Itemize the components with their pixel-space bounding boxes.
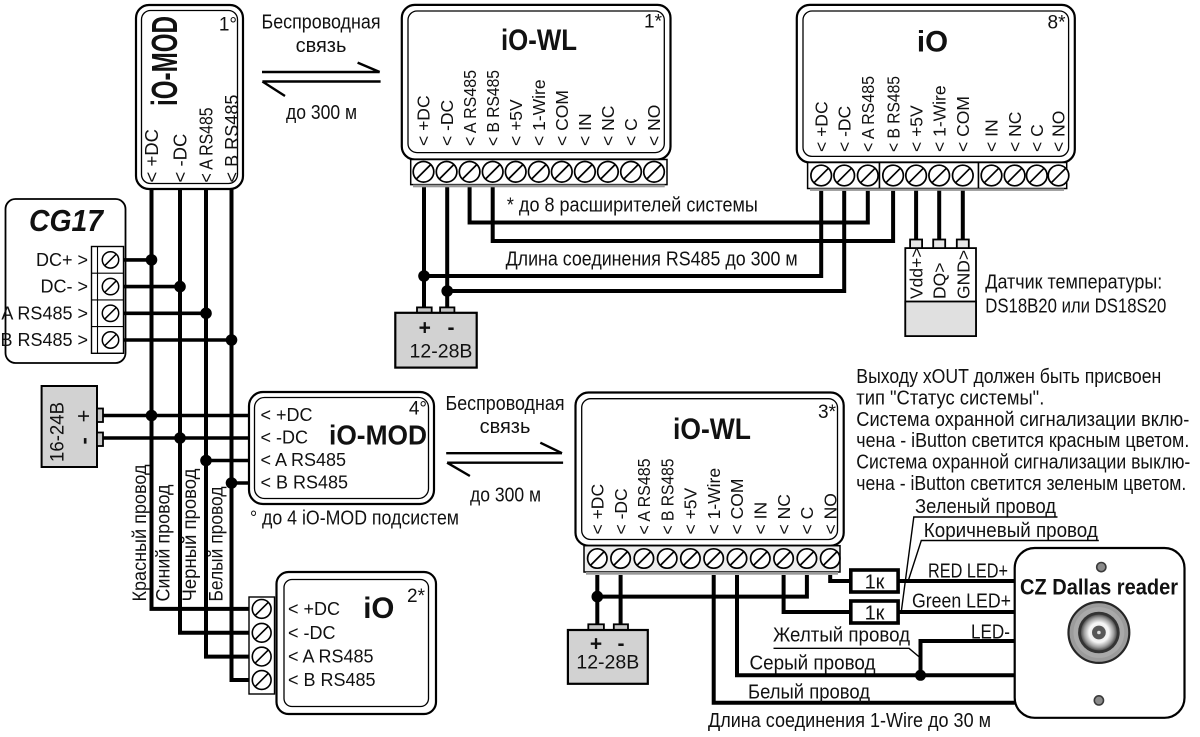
junction node LED- to COM [915, 670, 926, 681]
svg-text:DS18B20 или DS18S20: DS18B20 или DS18S20 [985, 296, 1166, 318]
svg-text:CG17: CG17 [29, 203, 105, 238]
svg-text:< B RS485: < B RS485 [261, 473, 349, 493]
svg-text:GND>: GND> [954, 250, 974, 299]
svg-text:Green LED+: Green LED+ [912, 590, 1011, 612]
wire bus: +DC red vertical from U1 to iO 2* [152, 189, 251, 609]
svg-text:Красный провод: Красный провод [130, 465, 151, 602]
svg-text:LED-: LED- [971, 622, 1010, 644]
svg-text:< A RS485: < A RS485 [858, 76, 878, 152]
svg-text:< IN: < IN [751, 502, 771, 535]
svg-text:iO-MOD: iO-MOD [144, 16, 185, 106]
svg-text:+: + [71, 410, 96, 423]
label Зеленый провод with callout [902, 496, 1058, 610]
svg-text:Система охранной сигнализации: Система охранной сигнализации выклю- [856, 452, 1190, 474]
svg-text:< +DC: < +DC [261, 405, 313, 425]
svg-text:< IN: < IN [575, 113, 595, 146]
svg-text:< C: < C [621, 118, 641, 146]
wire bus: B RS485 white vertical [232, 189, 251, 680]
svg-text:< -DC: < -DC [611, 488, 631, 534]
battery 12-28B (top) [395, 307, 476, 367]
module iO-MOD U1 (1&#176;) [136, 5, 243, 189]
wire -DC rail to iO8 [447, 191, 844, 291]
junction node B RS485 [226, 334, 238, 346]
wire node B RS485 to iO-MOD 4 [232, 481, 251, 485]
svg-text:CZ Dallas reader: CZ Dallas reader [1020, 575, 1178, 600]
wire 1-Wire (белый) to reader [714, 575, 1015, 703]
svg-text:° до 4 iO-MOD подсистем: ° до 4 iO-MOD подсистем [250, 508, 459, 530]
label Коричневый провод with callout [909, 520, 1099, 580]
svg-text:Длина соединения RS485 до 300: Длина соединения RS485 до 300 м [506, 249, 798, 271]
svg-text:< -DC: < -DC [834, 106, 854, 152]
svg-text:iO: iO [363, 592, 394, 625]
svg-text:< NC: < NC [774, 494, 794, 534]
junction node +DC battery2 [592, 591, 604, 603]
wire CG17 DC- to node [124, 285, 181, 289]
svg-text:* до 8 расширителей системы: * до 8 расширителей системы [507, 195, 758, 217]
svg-text:RED LED+: RED LED+ [928, 561, 1008, 583]
wire +DC rail to iO8 [424, 191, 821, 276]
battery 12-28B (bottom) [568, 624, 648, 684]
svg-text:Черный провод: Черный провод [180, 469, 201, 602]
svg-text:< NC: < NC [1005, 112, 1025, 152]
svg-text:Система охранной сигнализации: Система охранной сигнализации вклю- [856, 409, 1189, 431]
junction node A RS485 to U4 [200, 455, 212, 467]
svg-text:Серый провод: Серый провод [750, 653, 876, 675]
svg-text:чена - iButton светится зелены: чена - iButton светится зеленым цветом. [856, 473, 1186, 495]
svg-text:Синий провод: Синий провод [154, 485, 175, 602]
svg-text:Коричневый провод: Коричневый провод [924, 520, 1098, 542]
wire 16-24B + to iO-MOD 4 [103, 414, 250, 418]
svg-text:1к: 1к [865, 603, 885, 625]
svg-text:< COM: < COM [727, 479, 747, 535]
svg-text:Выходу xOUT должен быть присво: Выходу xOUT должен быть присвоен [856, 366, 1161, 388]
wire B RS485 rail [493, 187, 893, 241]
junction node A RS485 [200, 308, 212, 320]
svg-text:< A RS485: < A RS485 [460, 70, 480, 146]
svg-text:< B RS485: < B RS485 [883, 76, 903, 152]
svg-text:связь: связь [480, 416, 531, 438]
svg-text:< +5V: < +5V [506, 99, 526, 146]
wire iO-WL1 +DC down to battery [422, 187, 426, 307]
svg-text:12-28В: 12-28В [410, 341, 473, 363]
module iO U5 (8*) [797, 5, 1075, 191]
controller CG17 [0, 199, 125, 363]
junction node B RS485 to U4 [226, 477, 238, 489]
label Желтый провод with callout [773, 625, 921, 659]
svg-text:< -DC: < -DC [437, 100, 457, 146]
module iO-WL U6 (3*) [576, 393, 844, 575]
power supply 16-24B [42, 386, 103, 467]
svg-text:DC- >: DC- > [40, 277, 88, 297]
svg-text:связь: связь [296, 35, 347, 57]
wire 16-24B - to iO-MOD 4 [103, 436, 250, 440]
wire A RS485 rail [470, 187, 868, 222]
svg-text:Vdd+>: Vdd+> [907, 247, 927, 299]
wire node A RS485 to iO-MOD 4 [206, 459, 250, 463]
svg-text:< +DC: < +DC [811, 101, 831, 152]
svg-text:< B RS485: < B RS485 [221, 95, 242, 183]
junction node DC+ [146, 254, 158, 266]
svg-text:< COM: < COM [953, 96, 973, 152]
svg-text:B RS485 >: B RS485 > [0, 330, 88, 350]
resistor R2 1k [851, 601, 898, 625]
wire bus: -DC blue vertical [180, 189, 250, 633]
wire CG17 B RS485 to node [124, 338, 232, 342]
wire iO-WL1 -DC down to battery [445, 187, 449, 307]
svg-text:< 1-Wire: < 1-Wire [529, 79, 549, 146]
svg-text:< B RS485: < B RS485 [483, 70, 503, 146]
svg-text:< 1-Wire: < 1-Wire [929, 85, 949, 152]
svg-text:DQ>: DQ> [930, 263, 950, 299]
svg-text:< C: < C [1027, 124, 1047, 152]
svg-text:< NO: < NO [820, 493, 840, 534]
svg-text:4°: 4° [409, 398, 427, 419]
svg-text:16-24В: 16-24В [47, 402, 69, 462]
svg-text:iO-MOD: iO-MOD [329, 420, 427, 451]
svg-text:Датчик температуры:: Датчик температуры: [985, 272, 1162, 294]
resistor R1 1k [851, 570, 898, 594]
svg-text:< A RS485: < A RS485 [261, 450, 347, 470]
svg-text:Беспроводная: Беспроводная [262, 12, 381, 34]
svg-text:< A RS485: < A RS485 [288, 647, 374, 667]
svg-text:до 300 м: до 300 м [470, 485, 541, 507]
svg-text:1к: 1к [865, 572, 885, 594]
module iO U2 (2*) [249, 572, 436, 714]
svg-text:< -DC: < -DC [261, 428, 309, 448]
svg-text:12-28В: 12-28В [576, 652, 639, 674]
svg-text:< +DC: < +DC [588, 484, 608, 535]
svg-text:тип "Статус системы".: тип "Статус системы". [856, 387, 1044, 409]
svg-text:-: - [71, 437, 96, 444]
CZ Dallas reader [1015, 548, 1185, 718]
svg-text:Длина соединения 1-Wire до 30: Длина соединения 1-Wire до 30 м [708, 710, 991, 732]
wire NO to resistor R1 [830, 575, 851, 581]
wire bus: A RS485 black vertical [206, 189, 250, 657]
svg-text:< +DC: < +DC [141, 129, 162, 182]
temperature sensor DS18B20 [905, 240, 976, 337]
svg-text:< COM: < COM [552, 90, 572, 146]
svg-text:< IN: < IN [982, 119, 1002, 152]
junction node +16-24V [146, 410, 158, 422]
module iO-MOD U4 (4&#176;) [249, 392, 434, 504]
svg-text:< +5V: < +5V [906, 105, 926, 152]
svg-text:1*: 1* [644, 12, 663, 33]
svg-text:iO-WL: iO-WL [501, 24, 577, 57]
wire Green LED+ [898, 610, 1015, 614]
svg-text:до 300 м: до 300 м [286, 102, 357, 124]
wire +DC to relay C [597, 575, 807, 597]
svg-text:чена - iButton светится красны: чена - iButton светится красным цветом. [856, 430, 1189, 452]
svg-text:Беспроводная: Беспроводная [446, 393, 565, 415]
svg-text:< -DC: < -DC [170, 134, 191, 183]
wire CG17 DC+ to node [124, 258, 152, 262]
svg-text:Белый провод: Белый провод [207, 487, 228, 602]
wire RED LED+ [898, 579, 1015, 583]
wireless link 1 [262, 12, 381, 125]
svg-text:8*: 8* [1048, 13, 1067, 34]
svg-text:2*: 2* [407, 586, 426, 607]
junction node -16-24V [174, 432, 186, 444]
svg-text:Белый провод: Белый провод [748, 682, 870, 704]
svg-text:< +5V: < +5V [681, 487, 701, 534]
svg-text:iO: iO [917, 26, 948, 59]
svg-text:< 1-Wire: < 1-Wire [704, 468, 724, 535]
svg-text:< B RS485: < B RS485 [657, 459, 677, 535]
svg-text:A RS485 >: A RS485 > [1, 303, 88, 323]
svg-text:< NC: < NC [598, 106, 618, 146]
svg-text:< B RS485: < B RS485 [288, 670, 376, 690]
wire iO-WL3 -DC down to battery2 [619, 575, 623, 624]
svg-text:< NO: < NO [644, 105, 664, 146]
svg-text:< A RS485: < A RS485 [196, 108, 217, 183]
svg-text:1°: 1° [219, 15, 237, 36]
wire CG17 A RS485 to node [124, 311, 207, 315]
svg-text:< +DC: < +DC [414, 95, 434, 146]
wires iO8 +5V / 1-Wire / COM to sensor [914, 191, 918, 240]
junction node +DC rail [418, 270, 430, 282]
svg-text:< +DC: < +DC [288, 599, 340, 619]
svg-text:Желтый провод: Желтый провод [773, 625, 910, 647]
svg-text:< -DC: < -DC [288, 623, 336, 643]
note block xOUT status [856, 366, 1190, 495]
svg-text:< NO: < NO [1049, 111, 1069, 152]
module iO-WL U3 (1*) [402, 5, 671, 187]
svg-text:3*: 3* [818, 402, 837, 423]
wire iO-WL3 +DC down to battery2 [595, 575, 599, 624]
svg-text:< A RS485: < A RS485 [634, 459, 654, 535]
svg-text:< C: < C [797, 507, 817, 535]
svg-text:-: - [448, 317, 455, 340]
junction node -DC rail [441, 285, 453, 297]
svg-text:+: + [419, 317, 431, 340]
svg-text:iO-WL: iO-WL [673, 413, 751, 446]
wire COM (серый) to reader [737, 575, 1015, 675]
svg-text:DC+ >: DC+ > [36, 250, 88, 270]
junction node DC- [174, 281, 186, 293]
wire LED- [921, 641, 1015, 675]
svg-text:Зеленый провод: Зеленый провод [915, 496, 1056, 518]
wireless link 2 [446, 393, 565, 507]
wire NC to resistor R2 [784, 575, 851, 612]
